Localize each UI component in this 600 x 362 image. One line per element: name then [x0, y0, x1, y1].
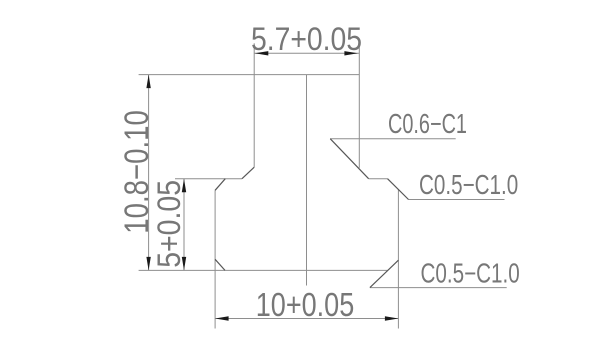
arrow down of 10.8 dim: [146, 257, 150, 271]
leader horizontal for lower C0.5-C1.0: [370, 287, 507, 289]
label C0.6-C1: [388, 109, 467, 140]
height dimension line 10.8: [148, 75, 150, 271]
arrow right of bottom dim: [385, 316, 399, 320]
bottom dimension line 10: [215, 318, 398, 320]
leader horizontal for C0.6-C1: [330, 138, 456, 140]
right base edge + extension below: [397, 189, 399, 329]
leader horizontal for upper C0.5-C1.0: [409, 199, 505, 201]
svg-text:10.8−0.10: 10.8−0.10: [117, 110, 156, 234]
svg-text:10+0.05: 10+0.05: [256, 288, 355, 324]
left base edge + extension below: [214, 190, 216, 328]
dimension text 5+0.05 (vertical): [153, 180, 188, 268]
label lower C0.5-C1.0: [421, 259, 520, 290]
bottom-left chamfer: [215, 259, 225, 270]
top edge of T-profile with left extension: [139, 74, 360, 76]
arrow right of top dim: [344, 51, 358, 55]
svg-text:C0.6−C1: C0.6−C1: [388, 109, 467, 140]
svg-text:C0.5−C1.0: C0.5−C1.0: [421, 259, 520, 290]
right step: [369, 178, 388, 180]
dimension text 10.8-0.10 (vertical): [117, 110, 156, 234]
height dimension line 5: [183, 179, 185, 271]
left flare diagonal: [215, 179, 225, 191]
top-right chamfer C0.6-C1 with leader extension: [330, 139, 368, 179]
arrow up of 10.8 dim: [146, 75, 150, 89]
dimension text 5.7+0.05: [251, 23, 362, 58]
svg-text:5.7+0.05: 5.7+0.05: [251, 23, 362, 58]
top dimension line 5.7: [254, 52, 359, 54]
left stem edge + extension above: [253, 43, 255, 167]
svg-text:5+0.05: 5+0.05: [153, 180, 188, 268]
svg-text:C0.5−C1.0: C0.5−C1.0: [419, 170, 518, 201]
label upper C0.5-C1.0: [419, 170, 518, 201]
arrow left of top dim: [255, 51, 268, 55]
centerline: [306, 75, 308, 286]
dimension text 10+0.05: [256, 288, 355, 324]
arrow up of 5 dim: [182, 179, 186, 193]
bottom edge with left extension: [139, 269, 388, 271]
bottom-right chamfer with leader extension: [370, 260, 399, 287]
arrow down of 5 dim: [182, 257, 186, 271]
left step with extension line: [175, 178, 242, 180]
right stem edge + extension above: [358, 43, 360, 168]
arrow left of bottom dim: [215, 316, 229, 320]
right chamfer C0.5-C1.0 with leader extension: [388, 179, 409, 200]
left stem chamfer: [242, 167, 254, 179]
